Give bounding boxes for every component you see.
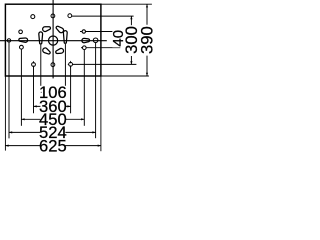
- svg-text:625: 625: [39, 136, 67, 155]
- svg-text:390: 390: [137, 26, 156, 54]
